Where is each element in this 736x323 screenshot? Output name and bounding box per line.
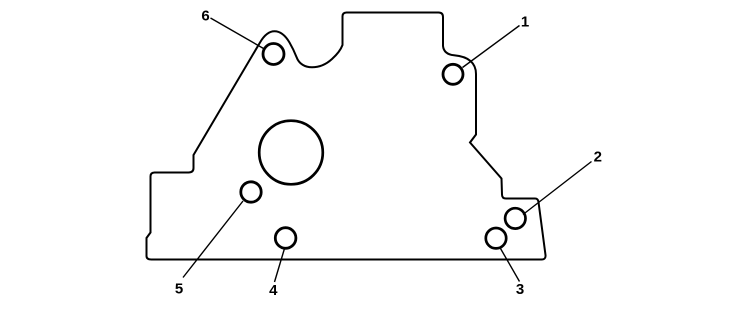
svg-text:5: 5 — [175, 281, 183, 298]
svg-text:6: 6 — [201, 8, 209, 25]
plate outline — [147, 13, 546, 260]
hole 5 — [241, 182, 261, 202]
hole 1 — [443, 64, 463, 84]
hole 4 — [275, 228, 296, 249]
leader 6 — [211, 18, 264, 49]
leader 4 — [275, 249, 285, 283]
leader 1 — [463, 26, 520, 68]
svg-text:4: 4 — [269, 282, 278, 299]
leader 3 — [501, 249, 520, 282]
leader 5 — [183, 201, 243, 278]
hole 6 — [263, 44, 284, 65]
svg-text:2: 2 — [594, 149, 602, 166]
svg-text:3: 3 — [516, 281, 524, 298]
hole 2 — [505, 208, 525, 228]
svg-text:1: 1 — [521, 14, 529, 31]
large center hole — [259, 121, 323, 185]
hole 3 — [486, 228, 506, 248]
leader 2 — [523, 162, 592, 215]
